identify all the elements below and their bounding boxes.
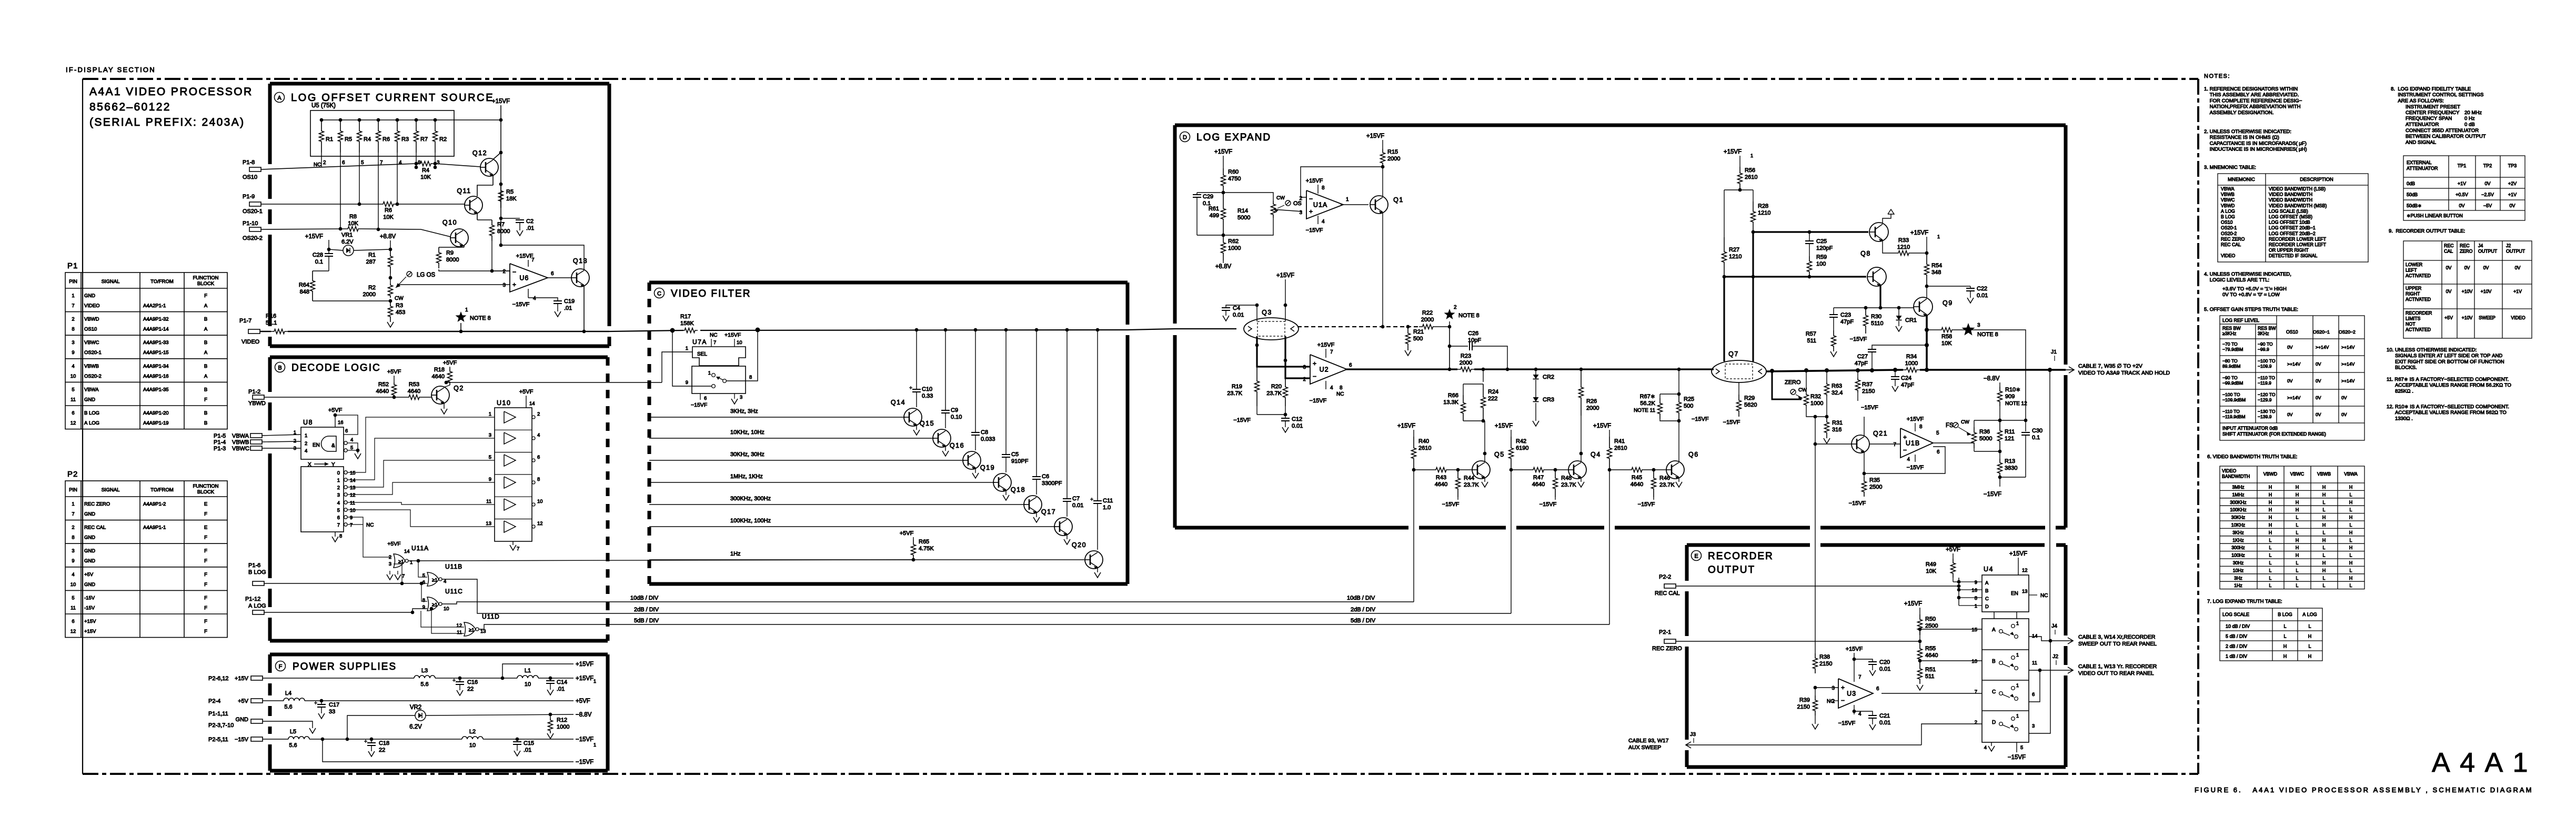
svg-text:12: 12 [71,420,76,426]
svg-text:ACTIVATED: ACTIVATED [2406,273,2431,278]
svg-text:R61: R61 [1209,206,1219,212]
capacitor C24 [1891,370,1914,391]
svg-text:5dB / DIV: 5dB / DIV [1351,618,1376,624]
svg-text:2 dB / DIV: 2 dB / DIV [2226,644,2247,649]
svg-text:C26: C26 [1468,330,1478,337]
wire U1B feedback [1863,447,1945,475]
svg-text:−130 TO: −130 TO [2258,409,2276,414]
svg-text:3: 3 [437,160,440,166]
svg-text:L: L [2269,553,2272,558]
svg-text:R27: R27 [1729,247,1739,253]
connector P1-5 [214,433,262,439]
svg-text:F: F [204,582,207,588]
power +15VF R41 [1593,423,1611,437]
svg-text:1: 1 [593,679,596,684]
U8 X to Y arrow [308,462,335,468]
capacitor C21 [1853,710,1891,730]
svg-text:RECORDER LOWER LEFT: RECORDER LOWER LEFT [2269,236,2327,241]
svg-text:H: H [2269,492,2272,497]
svg-text:A LOG: A LOG [84,420,99,426]
svg-text:+: + [1309,208,1313,215]
svg-text:P2-1: P2-1 [1659,629,1671,636]
U8 output pin 13 [337,485,356,491]
transistor Q21 [1851,430,1888,453]
block A label [275,92,495,104]
power -15VF R44 [1442,497,1460,508]
svg-text:NOTES:: NOTES: [2204,73,2230,79]
wire +15VF branch [502,661,593,678]
svg-text:0.01: 0.01 [1977,293,1988,299]
wire star node down to main line [1448,327,1452,371]
svg-text:R26: R26 [1586,398,1597,405]
svg-text:R54: R54 [1931,263,1942,269]
svg-text:4: 4 [1322,219,1325,225]
note 5 heading [2204,307,2298,312]
svg-text:1: 1 [2016,683,2019,688]
svg-text:7: 7 [72,303,74,309]
svg-text:100KHz: 100KHz [2230,507,2246,512]
resistor R65 [900,530,934,561]
svg-text:R65: R65 [919,539,929,545]
svg-text:A4A9P1-2: A4A9P1-2 [143,501,166,507]
svg-text:10dB / DIV: 10dB / DIV [1347,595,1375,601]
svg-text:23.7K: 23.7K [1561,482,1576,488]
resistor pair R66 R24 [1443,369,1503,422]
wire U7A pin8 to bus [727,330,758,381]
svg-text:RIGHT: RIGHT [2406,291,2420,297]
svg-text:R18: R18 [434,367,445,373]
svg-text:OS20-1: OS20-1 [243,208,263,215]
transistor Q9 [1914,297,1953,317]
U7A pin3 ground [731,394,742,404]
wire U7A pin1 SEL [662,352,692,382]
wire YBWD line [264,397,406,398]
svg-text:C18: C18 [379,740,389,747]
svg-text:B: B [204,420,207,426]
svg-text:H: H [2349,485,2352,490]
wire R47 to Q4 base [1547,468,1568,472]
svg-text:INPUT ATTENUATOR 0dB: INPUT ATTENUATOR 0dB [2222,426,2278,431]
resistor R60 [1221,168,1241,194]
svg-text:8. LOG EXPAND FIDELITY TABLE: 8. LOG EXPAND FIDELITY TABLE [2391,86,2471,92]
svg-text:−15VF: −15VF [1838,720,1856,727]
svg-text:OS20-2: OS20-2 [243,235,263,241]
wire U8 to U10 [347,502,495,505]
svg-text:R37: R37 [1862,381,1873,388]
table recorder output [2403,241,2532,338]
wire 300KHz, 300Hz line [649,496,1025,505]
svg-text:7: 7 [1975,689,1977,695]
wire A LOG line [264,609,427,614]
svg-text:1: 1 [465,307,468,313]
resistor R27 [1722,237,1742,277]
svg-text:−15VF: −15VF [1849,500,1866,507]
svg-text:R7: R7 [420,136,428,143]
svg-text:13: 13 [486,521,491,527]
svg-text:L: L [2323,530,2326,535]
svg-text:50dB∗: 50dB∗ [2407,203,2422,208]
svg-text:U6: U6 [519,275,529,282]
svg-text:R53: R53 [409,381,419,388]
svg-text:3: 3 [2032,723,2035,729]
svg-text:−: − [512,268,516,276]
svg-text:5.6: 5.6 [420,681,428,688]
svg-text:300KHz: 300KHz [2230,500,2246,505]
svg-text:+15VF: +15VF [1276,273,1294,279]
svg-text:SWEEP OUT TO REAR PANEL: SWEEP OUT TO REAR PANEL [2078,641,2157,647]
svg-text:REC ZERO: REC ZERO [2221,236,2245,241]
junction video bus [1065,328,1069,332]
svg-text:−90 TO: −90 TO [2258,341,2273,347]
svg-text:A: A [204,350,208,356]
svg-text:16: 16 [338,420,344,426]
svg-text:L: L [2350,568,2352,573]
wire OS20-2 line [261,229,345,229]
svg-text:UPPER: UPPER [2406,286,2421,291]
wire R56 node split [1724,190,1753,237]
svg-text:R11: R11 [2005,429,2015,435]
svg-text:−110 TO: −110 TO [2222,409,2240,414]
wire +5V line b [305,698,590,704]
gate U11B [422,563,462,586]
svg-text:A4A9P1-14: A4A9P1-14 [143,327,169,332]
svg-text:.01: .01 [564,305,572,311]
svg-text:L: L [2323,545,2326,550]
svg-text:P1-4: P1-4 [214,439,226,446]
svg-text:R5: R5 [506,189,514,195]
svg-text:P1-7: P1-7 [239,318,251,324]
svg-text:GND: GND [84,548,95,554]
svg-text:LOWER: LOWER [2406,262,2422,267]
svg-text:1.0: 1.0 [1103,505,1111,511]
capacitor C15 [513,739,534,756]
svg-text:Q4: Q4 [1591,451,1601,458]
svg-text:OS10: OS10 [2221,220,2233,225]
wire U6 minus input [492,270,510,271]
svg-text:12. R10∗ IS A FACTORY−SELECTED: 12. R10∗ IS A FACTORY−SELECTED COMPONENT… [2387,404,2509,410]
svg-text:1MHz: 1MHz [2232,492,2245,497]
wire L3 to L1 [435,677,517,680]
resistor pair R67 R25 [1634,369,1694,422]
svg-text:100Hz: 100Hz [2231,553,2245,558]
svg-text:+: + [1841,684,1845,691]
svg-text:12: 12 [2022,568,2028,573]
svg-text:30KHz, 30Hz: 30KHz, 30Hz [730,451,764,458]
svg-text:+15VF: +15VF [1846,646,1863,652]
svg-text:L: L [2269,583,2272,588]
wire U5 pin6 to OS20-2 line [339,167,343,230]
svg-text:511: 511 [1807,338,1816,344]
svg-text:2: 2 [1454,305,1457,310]
svg-text:EXTERNAL: EXTERNAL [2407,160,2432,165]
U4 switch B [1971,1,2029,670]
svg-text:IF-DISPLAY SECTION: IF-DISPLAY SECTION [66,66,156,74]
transistor Q20 [1072,541,1103,569]
svg-text:+15VF: +15VF [1593,423,1611,429]
capacitor C16 [452,678,478,695]
junction video bus [1035,328,1039,332]
svg-text:4750: 4750 [1228,176,1241,182]
svg-text:VBWC: VBWC [2221,197,2235,203]
svg-text:0V: 0V [2341,395,2347,400]
wire U8 to U10 [347,482,495,495]
transistor Q6 [1666,451,1699,479]
svg-text:Q11: Q11 [457,187,471,195]
transistor Q8 lower [1867,267,1886,287]
svg-text:L: L [2323,553,2326,558]
svg-text:3MHz: 3MHz [2232,485,2245,490]
svg-text:∗PUSH LINEAR BUTTON: ∗PUSH LINEAR BUTTON [2407,213,2463,218]
svg-text:LG OS: LG OS [417,272,435,278]
connector P2-4 +5V [208,698,263,704]
svg-text:0.01: 0.01 [1072,502,1083,509]
svg-text:C10: C10 [922,386,932,392]
IC U8 upper section [294,419,344,459]
U5 pin 7 stub [378,153,383,167]
ground Q8 upper collector [1883,209,1894,224]
svg-text:R43: R43 [1436,475,1446,481]
svg-text:R29: R29 [1744,395,1755,401]
svg-text:J4: J4 [2051,623,2057,629]
svg-text:2000: 2000 [363,291,376,298]
svg-text:2150: 2150 [1797,704,1810,710]
junction video bus [944,328,948,332]
svg-text:2dB / DIV: 2dB / DIV [1351,607,1376,613]
transistor Q19 [980,464,1011,492]
svg-text:C5: C5 [1011,451,1019,458]
diode CR3 [1533,380,1554,426]
svg-text:6: 6 [1349,362,1352,368]
svg-text:1KHz: 1KHz [2232,538,2244,543]
connector table P1 [65,261,227,429]
svg-text:8: 8 [749,375,752,380]
svg-text:10: 10 [469,742,476,749]
wire FS network top [1974,419,2027,422]
power +8.8V label block A [380,234,396,249]
svg-text:Q6: Q6 [1688,451,1699,458]
svg-text:12: 12 [456,623,462,629]
svg-text:100KHz, 100Hz: 100KHz, 100Hz [730,518,771,524]
svg-text:Q12: Q12 [472,149,487,157]
svg-text:−15VF: −15VF [1233,417,1251,423]
svg-text:H: H [2322,522,2326,528]
svg-text:1210: 1210 [1758,210,1770,216]
svg-text:VBWD: VBWD [2263,471,2277,477]
svg-text:+1V: +1V [2458,181,2466,186]
outer dash-dot border right [2197,79,2199,774]
svg-text:F: F [279,664,283,670]
svg-text:0.10: 0.10 [951,414,962,420]
svg-text:2: 2 [323,160,326,166]
svg-text:0.1: 0.1 [315,259,323,265]
resistor pack U5 outline [310,103,454,156]
potentiometer R32 [1804,370,1824,407]
svg-text:11: 11 [71,397,76,402]
svg-text:23.7K: 23.7K [1227,390,1242,397]
svg-text:J4: J4 [2478,243,2483,248]
svg-text:287: 287 [366,259,376,265]
svg-text:P1-3: P1-3 [214,446,226,452]
wire R25 to Q6 collector [1678,421,1679,453]
svg-text:4640: 4640 [1925,652,1938,659]
svg-text:VIDEO BANDWIDTH: VIDEO BANDWIDTH [2269,192,2312,197]
svg-text:−15VF: −15VF [1539,501,1557,508]
svg-text:OS20-1: OS20-1 [84,350,102,356]
svg-text:R31: R31 [1832,420,1843,426]
svg-text:R45: R45 [1632,475,1642,481]
svg-text:4640: 4640 [1631,481,1643,488]
svg-text:2000: 2000 [1586,405,1599,411]
svg-text:R1: R1 [368,252,376,258]
svg-text:R52: R52 [378,381,389,388]
svg-text:TP2: TP2 [2483,163,2492,168]
svg-text:U8: U8 [303,419,313,426]
svg-text:10. UNLESS OTHERWISE INDICATED: 10. UNLESS OTHERWISE INDICATED: [2387,347,2477,353]
svg-text:THIS ASSEMBLY ARE ABBREVIATED.: THIS ASSEMBLY ARE ABBREVIATED. [2204,92,2299,98]
svg-text:L: L [2296,583,2299,588]
wire thick rail lower [1723,275,1866,279]
svg-text:2150: 2150 [1862,388,1875,395]
svg-text:P1-9: P1-9 [243,194,255,200]
svg-text:2: 2 [305,441,307,447]
U10 buffer 11-10 [486,497,542,510]
svg-text:−8.8V: −8.8V [1984,376,2000,382]
svg-text:−79.9dBM: −79.9dBM [2222,347,2243,352]
svg-text:RECORDER: RECORDER [1708,551,1774,562]
svg-text:P1-6: P1-6 [248,562,260,569]
wire Q7 gate risers [1724,232,1753,361]
wire U11D inputs [421,607,464,633]
adjust ZERO [1785,379,1807,400]
svg-text:C30: C30 [2032,428,2042,434]
star note8 no3 [1962,322,1998,338]
resistor R46 [1652,470,1675,497]
function block F frame [270,654,608,771]
svg-text:CABLE 3, W14 Xr,RECORDER: CABLE 3, W14 Xr,RECORDER [2078,634,2156,640]
svg-text:R24: R24 [1488,389,1498,395]
svg-text:1000: 1000 [1905,360,1918,367]
svg-text:R17: R17 [680,314,691,320]
svg-text:D: D [1985,604,1989,610]
svg-text:+10V: +10V [2481,289,2492,294]
svg-text:A4A9P1-32: A4A9P1-32 [143,317,169,322]
svg-text:10: 10 [737,340,742,346]
power -15VF R46 [1638,497,1655,508]
svg-text:316: 316 [1832,427,1842,433]
svg-text:6: 6 [1937,449,1940,455]
svg-text:LOG OFFSET (MSB): LOG OFFSET (MSB) [2269,214,2312,219]
svg-text:13: 13 [350,485,356,491]
svg-text:12: 12 [71,629,76,634]
junction video bus [974,328,978,332]
power +15VF R60 [1214,149,1232,168]
svg-text:L: L [2350,492,2352,497]
svg-text:OUTPUT: OUTPUT [1708,564,1755,576]
wire R43 to Q5 base [1450,468,1472,472]
junction video bus [1096,328,1100,332]
svg-text:−15VF: −15VF [512,301,530,308]
capacitor C17 [314,701,339,719]
svg-text:5: 5 [337,508,340,513]
svg-text:Q8: Q8 [1860,250,1871,257]
svg-text:LOG REF LEVEL: LOG REF LEVEL [2222,318,2259,323]
wire U11A out to U11B pin5 [418,561,427,577]
svg-text:1: 1 [1750,153,1753,158]
svg-text:A4A9P1-20: A4A9P1-20 [143,410,169,416]
U5 pin 2 NC label [314,162,321,168]
svg-text:8: 8 [72,535,74,541]
wire U7A pin9 [672,329,711,386]
svg-text:6. VIDEO BANDWIDTH TRUTH TABLE: 6. VIDEO BANDWIDTH TRUTH TABLE: [2207,454,2297,460]
svg-text:L: L [2296,568,2299,573]
label 5dB/DIV right [1351,618,1376,624]
wire R53 to Q2 [422,397,431,398]
FET Q7 [1712,350,1766,382]
svg-text:8: 8 [1322,185,1325,191]
svg-text:U11B: U11B [445,563,462,570]
svg-text:GND: GND [84,582,95,588]
svg-text:L3: L3 [421,668,428,674]
svg-text:8000: 8000 [497,228,510,235]
svg-text:−90 TO: −90 TO [2222,375,2238,380]
svg-text:3: 3 [1303,365,1306,370]
wire switch C input from U3 [1881,693,1982,694]
svg-text:L4: L4 [285,690,291,697]
svg-text:3: 3 [1299,210,1302,216]
svg-text:100: 100 [1816,261,1826,267]
svg-text:+15VF: +15VF [1495,423,1513,429]
svg-text:R38: R38 [1819,654,1830,660]
svg-text:INSTRUMENT PRESET: INSTRUMENT PRESET [2406,104,2460,110]
wire U4 ABCD inputs [1959,582,1982,606]
transistor Q16 [950,442,981,470]
svg-text:P1-12: P1-12 [245,596,260,602]
svg-text:10KHz: 10KHz [2231,522,2245,528]
svg-text:F: F [204,629,207,634]
svg-text:7. LOG EXPAND TRUTH TABLE:: 7. LOG EXPAND TRUTH TABLE: [2207,599,2282,604]
svg-text:5: 5 [422,573,425,579]
svg-text:R23: R23 [1461,353,1471,359]
svg-text:VIDEO: VIDEO [2222,468,2237,473]
svg-text:F: F [204,511,207,517]
wire switch C out up to J2 [2029,670,2040,702]
svg-text:CENTER FREQUENCY: CENTER FREQUENCY [2406,110,2460,116]
svg-text:R42: R42 [1516,438,1526,445]
svg-text:+10V: +10V [2462,289,2473,294]
svg-text:R41: R41 [1614,438,1625,445]
svg-text:7: 7 [350,522,353,528]
svg-text:B: B [204,410,207,416]
svg-text:4: 4 [533,296,536,301]
resistor R12 [547,714,569,739]
svg-text:CABLE 1, W13 Yr. RECORDER: CABLE 1, W13 Yr. RECORDER [2078,663,2157,670]
wire Q21 base to R38 vertical [1814,442,1851,446]
svg-text:−15VF: −15VF [1442,501,1460,508]
resistor R47 [1530,468,1547,488]
svg-text:20 MHz: 20 MHz [2464,110,2482,116]
svg-text:13.3K: 13.3K [1443,399,1458,406]
U10 buffer 9-8 [489,475,540,488]
wire U8 to U10 [347,417,495,472]
svg-text:+3.6V TO +5.0V = ‘1’= HIGH: +3.6V TO +5.0V = ‘1’= HIGH [2222,286,2287,292]
IC U4 top section [1971,551,2048,612]
wire R45 to Q6 base [1645,468,1666,472]
svg-text:A LOG: A LOG [2221,208,2235,214]
resistor R28 [1751,201,1771,232]
svg-text:A LOG: A LOG [2302,612,2317,617]
svg-text:LOG OFFSET 20dB−1: LOG OFFSET 20dB−1 [2269,225,2316,230]
svg-text:TO/FROM: TO/FROM [150,279,174,285]
